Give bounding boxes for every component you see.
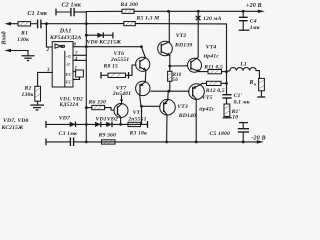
svg-text:6: 6: [74, 43, 77, 48]
svg-text:R4 300: R4 300: [120, 2, 139, 8]
resistor R6 330: [86, 99, 106, 109]
diode VD7: [59, 115, 76, 127]
svg-text:С3 1мк: С3 1мк: [59, 131, 78, 137]
svg-text:VD1: VD1: [96, 116, 107, 122]
node dot (VT1 collector / diode row): [119, 123, 122, 126]
main vertical node line: [85, 12, 87, 142]
correction capacitor box on pins 1,8: [73, 70, 83, 79]
svg-text:VT5: VT5: [202, 95, 213, 101]
svg-text:tip42c: tip42c: [199, 107, 214, 113]
VD7, VD8 КС215Ж label: [1, 118, 29, 131]
wire VT6 base hook from R8: [129, 65, 137, 75]
svg-text:-20 В: -20 В: [252, 135, 266, 141]
resistor R10 56: [168, 71, 182, 83]
svg-text:2n5551: 2n5551: [110, 57, 129, 63]
svg-text:VT2: VT2: [176, 33, 187, 39]
wire node A to main vertical: [46, 23, 86, 25]
transistor VT7 2n5401: [112, 81, 150, 97]
wire VT6 collector up to pin6 node: [141, 47, 145, 58]
node dot (VT4 collector): [197, 10, 200, 13]
diode VD1: [95, 116, 107, 127]
svg-text:+U: +U: [66, 54, 73, 59]
svg-text:2n5551: 2n5551: [127, 116, 146, 122]
svg-text:С4: С4: [250, 19, 257, 25]
wire node to VT3 base: [142, 105, 161, 107]
wire VT5 collector down: [195, 99, 197, 142]
node dot (VT3 collector): [165, 141, 168, 144]
svg-text:С5 1800: С5 1800: [210, 131, 230, 137]
svg-text:VD2: VD2: [107, 116, 118, 122]
bottom rail arrow: [257, 140, 264, 143]
svg-text:VD7, VD8: VD7, VD8: [3, 118, 29, 124]
svg-text:-U: -U: [66, 62, 72, 67]
output vertical to Zobel: [226, 72, 228, 95]
wire VT1 collector down: [120, 117, 122, 124]
svg-text:DA1: DA1: [59, 29, 72, 35]
feedback wire R5 row: [86, 23, 124, 25]
bottom rail wire: [46, 141, 258, 143]
resistor R8 15: [101, 64, 129, 79]
op-amp pin 4 wire: [73, 59, 86, 61]
node dot (C5): [242, 141, 245, 144]
svg-text:R6 330: R6 330: [88, 99, 107, 105]
svg-text:КР544УД2А: КР544УД2А: [49, 35, 82, 41]
node dot (VD8): [85, 34, 88, 37]
diode row wire: [46, 123, 142, 125]
bias row wire (VT7 to VT5 base): [151, 90, 189, 92]
svg-text:КС215Ж: КС215Ж: [1, 125, 25, 131]
terminal bar (C2 left): [55, 9, 57, 16]
wire VT6 emitter to VT7 emitter: [144, 70, 147, 81]
node dot (diode row / main vertical): [85, 123, 88, 126]
svg-text:BD140: BD140: [178, 113, 196, 119]
zener VD8 КС215Ж: [87, 32, 122, 45]
rail R4 to +20В arrow: [134, 10, 259, 12]
inductor L1: [227, 61, 257, 71]
wire C2 left: [56, 11, 71, 13]
node dot (VT5 collector): [195, 141, 198, 144]
svg-text:Вход: Вход: [1, 31, 8, 45]
svg-text:4: 4: [74, 57, 78, 62]
svg-text:R1: R1: [20, 31, 28, 37]
node dot (bottom / main vertical): [85, 141, 88, 144]
op-amp pin 7 wire: [73, 54, 86, 56]
svg-text:2: 2: [46, 48, 50, 53]
svg-text:R2: R2: [24, 86, 32, 92]
wire VT7 collector down: [140, 96, 141, 107]
zener VD8 row wire: [86, 34, 113, 36]
svg-text:tip41c: tip41c: [204, 53, 219, 59]
transistor VT4 tip41c: [188, 45, 220, 73]
load Rн: [249, 78, 266, 97]
svg-text:10: 10: [232, 115, 238, 121]
svg-text:R8 15: R8 15: [103, 64, 119, 70]
svg-text:VT3: VT3: [177, 104, 188, 110]
top rail wire with R4: [86, 10, 122, 12]
input terminal Вход (signal): [1, 22, 19, 46]
svg-text:+20 В: +20 В: [246, 3, 262, 9]
svg-text:VT6: VT6: [114, 51, 125, 57]
svg-text:BD139: BD139: [174, 42, 192, 48]
wire C2 to main vertical corner: [74, 11, 86, 13]
svg-text:VT4: VT4: [206, 45, 217, 51]
VT1 emitter arrow dot: [120, 98, 123, 101]
node dot (R12/output vertical): [225, 82, 228, 85]
svg-text:R9 360: R9 360: [98, 132, 117, 138]
svg-text:VT1: VT1: [133, 110, 144, 116]
node dot (pin6): [85, 45, 88, 48]
resistor R4 300: [120, 2, 139, 13]
svg-text:VD7: VD7: [59, 115, 71, 121]
capacitor C5 1800: [210, 123, 250, 142]
svg-text:R: R: [249, 80, 254, 86]
capacitor С1' 0,1мк: [222, 93, 249, 106]
op-amp DA1 КР544УД2А box: [49, 29, 82, 87]
wire VT4 collector to rail: [196, 11, 198, 59]
node dot (R10 bottom / VT3 emitter): [167, 90, 170, 93]
svg-text:R3 18к: R3 18к: [129, 130, 148, 136]
op-amp pin 6 output wire: [73, 46, 141, 48]
node dot (R5/input): [85, 22, 88, 25]
wire L1 to Rн: [256, 71, 259, 79]
svg-text:С2 1мк: С2 1мк: [62, 3, 82, 9]
svg-text:FC: FC: [66, 72, 72, 77]
svg-text:КД522А: КД522А: [59, 102, 80, 108]
wire cap to R1': [226, 98, 228, 104]
wire VT3 collector down: [166, 115, 168, 142]
transistor VT2 BD139: [158, 33, 192, 56]
node dot (VT2 collector): [167, 10, 170, 13]
wire C1 to node A: [41, 23, 47, 25]
wire VT2 collector to rail: [168, 11, 170, 42]
node A (input node): [45, 22, 48, 25]
ground (R2): [30, 101, 44, 110]
node dot (C4): [242, 10, 245, 13]
svg-text:120 мА: 120 мА: [203, 16, 222, 22]
resistor R1' 10: [223, 104, 241, 121]
node dot (VT6 collector / pin6): [140, 45, 143, 48]
wire VT1 emitter stub: [121, 99, 123, 104]
wire op-amp pin 3 to R2: [38, 72, 53, 86]
terminal bar (diode row left): [45, 121, 47, 128]
wire R6 to VT1 base: [105, 108, 114, 111]
svg-text:С1': С1': [234, 93, 243, 99]
capacitor C4 1мк: [239, 11, 260, 31]
wire node A down to op-amp pin 2: [46, 24, 52, 47]
rail end arrow: [258, 10, 265, 13]
wire R10 to bias row: [169, 81, 171, 91]
ground (input): [22, 51, 35, 61]
node dot (R6): [85, 106, 88, 109]
node dot (output/L1): [225, 70, 228, 73]
wire VT2 emitter down: [169, 55, 171, 71]
svg-text:56: 56: [173, 78, 179, 83]
svg-text:130к: 130к: [22, 92, 34, 98]
resistor R2 130к: [22, 86, 41, 102]
svg-text:1мк: 1мк: [250, 25, 260, 31]
transistor VT1 2n5551: [114, 104, 147, 123]
svg-text:0,1 мк: 0,1 мк: [234, 99, 250, 105]
svg-text:130к: 130к: [17, 37, 29, 43]
resistor R5 1,3 М: [124, 16, 160, 26]
svg-text:R11 0,5: R11 0,5: [203, 64, 223, 70]
transistor VT5 tip42c: [189, 84, 215, 113]
capacitor C1 1мк: [28, 11, 48, 28]
input terminal ground arrow: [5, 49, 29, 53]
wire R1 to C1: [31, 23, 38, 25]
wire VT7 collector node down to R3 row: [141, 106, 143, 124]
svg-text:R5 1,3 М: R5 1,3 М: [136, 16, 161, 22]
svg-text:FC: FC: [66, 80, 72, 85]
terminal bar (VD8 right): [112, 32, 114, 38]
terminal bar (bottom row left): [45, 139, 47, 146]
resistor R11 0,5: [200, 64, 227, 74]
node dot (VT4 base tap): [168, 65, 171, 68]
transistor VT3 BD140: [160, 99, 196, 118]
wire VT1 emitter stub up: [121, 96, 123, 100]
wire VT4 base from VT2 emitter node: [170, 65, 188, 67]
node dot (VT7 collector / VT3 base): [140, 105, 143, 108]
VD1, VD2 КД522А label: [59, 96, 84, 108]
capacitor C3 1мк: [59, 131, 78, 146]
svg-text:L1: L1: [239, 61, 247, 67]
current cross mark: [196, 16, 201, 20]
resistor R3 18к: [128, 121, 148, 136]
resistor R12 0,5: [200, 81, 227, 94]
feedback wire to output drop: [135, 24, 226, 72]
svg-text:R12 0,5: R12 0,5: [205, 88, 225, 94]
svg-text:VD8 КС215Ж: VD8 КС215Ж: [87, 40, 122, 46]
resistor R1 130к: [17, 22, 31, 44]
svg-text:С1 1мк: С1 1мк: [28, 11, 48, 17]
resistor R9 360: [98, 132, 117, 144]
wire VT3 emitter up: [167, 91, 169, 100]
transistor VT6 2n5551: [110, 51, 150, 71]
capacitor C2 1мк: [62, 3, 82, 17]
diode VD2: [106, 116, 118, 127]
